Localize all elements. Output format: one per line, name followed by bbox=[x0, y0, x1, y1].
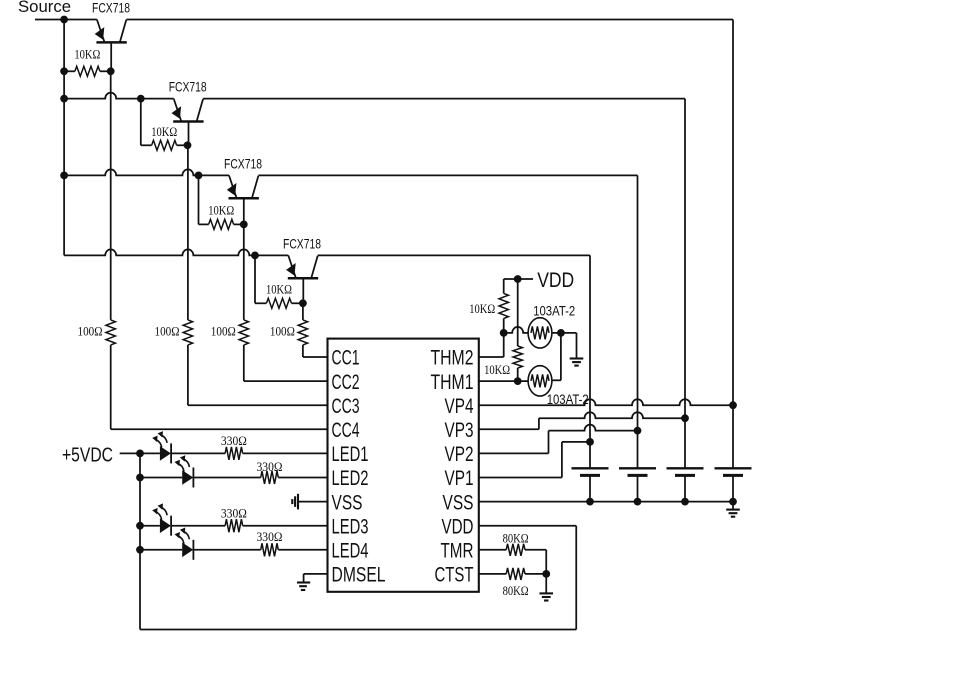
svg-text:Source: Source bbox=[18, 0, 71, 16]
svg-text:100Ω: 100Ω bbox=[78, 323, 103, 338]
ground (thermistor) bbox=[576, 351, 578, 359]
svg-text:100Ω: 100Ω bbox=[270, 323, 295, 338]
resistor 330&#937; (LED4) bbox=[261, 543, 279, 556]
ground (battery stack) bbox=[732, 502, 734, 510]
wire RT1 right to ground branch bbox=[552, 332, 577, 334]
svg-text:FCX718: FCX718 bbox=[169, 79, 207, 95]
junction 10K right / Q3 base bbox=[240, 221, 248, 229]
wire VP1 pin jog bbox=[479, 477, 562, 479]
svg-text:VP4: VP4 bbox=[445, 395, 474, 418]
resistor 10K&#937; (Q3 base) bbox=[199, 223, 209, 225]
junction 10K right / Q1 base bbox=[107, 67, 115, 75]
resistor 330&#937; (LED1) bbox=[225, 447, 243, 460]
wire +5V vertical bus bbox=[139, 453, 141, 629]
LED D4 bbox=[182, 543, 193, 558]
junction stage3 split bbox=[195, 172, 203, 180]
svg-text:10KΩ: 10KΩ bbox=[151, 124, 177, 139]
wire LED4 to resistor bbox=[193, 549, 260, 551]
svg-text:CC4: CC4 bbox=[332, 419, 360, 442]
svg-text:THM2: THM2 bbox=[431, 347, 474, 370]
wire VP2 pin jog bbox=[479, 452, 549, 454]
wire VSS rail bbox=[479, 501, 733, 503]
resistor 10K&#937; (Q4 base) bbox=[255, 302, 266, 304]
wire VP3 to battery3 bbox=[539, 412, 685, 418]
junction VP1 tap bbox=[586, 438, 594, 446]
svg-text:CC1: CC1 bbox=[332, 347, 360, 370]
transistor Q2 FCX718 bbox=[174, 99, 182, 121]
thermistor RT2 103AT-2 bbox=[528, 366, 552, 396]
junction THM1/10K bbox=[514, 377, 522, 385]
resistor 100&#937; #1 bbox=[110, 319, 112, 321]
junction VSS cell1 bbox=[586, 498, 594, 506]
wire CTST pin bbox=[479, 573, 506, 575]
svg-text:10KΩ: 10KΩ bbox=[266, 282, 292, 297]
svg-text:VP1: VP1 bbox=[445, 467, 474, 490]
wire +5V to LED2 bbox=[140, 477, 182, 479]
wire RT1/RT2 right link bbox=[560, 333, 562, 380]
LED D3 bbox=[160, 518, 171, 533]
wire to thermistor ground bbox=[576, 333, 578, 351]
svg-text:DMSEL: DMSEL bbox=[332, 564, 386, 587]
wire +5VDC feed bbox=[120, 452, 160, 454]
svg-text:VSS: VSS bbox=[443, 491, 474, 514]
wire Q2 base vertical to 100ohm resistor 2 bbox=[188, 122, 190, 146]
svg-text:LED1: LED1 bbox=[332, 443, 369, 466]
svg-text:CC3: CC3 bbox=[332, 395, 360, 418]
junction RT1 right bbox=[557, 329, 565, 337]
svg-text:10KΩ: 10KΩ bbox=[208, 203, 234, 218]
svg-text:THM1: THM1 bbox=[431, 371, 474, 394]
resistor 10K&#937; (Q1 base) bbox=[64, 70, 75, 72]
wire to LED4 pin bbox=[278, 549, 327, 551]
wire CC4 connection bbox=[110, 345, 112, 429]
svg-text:VP3: VP3 bbox=[445, 419, 474, 442]
wire bottom rail bbox=[140, 629, 576, 631]
wire THM1 pin bbox=[479, 380, 528, 382]
wire stage4 rail bbox=[64, 249, 288, 255]
wire stage4 Q4 collector run bbox=[318, 254, 590, 256]
wire vertical battery2 feed bbox=[637, 175, 639, 430]
IC U1 battery monitor bbox=[328, 339, 479, 592]
wire TMR to CTST junction bbox=[525, 549, 546, 551]
resistor 10K&#937; (THM2 pullup) bbox=[503, 279, 505, 293]
battery cell 1 (VP1) bbox=[589, 442, 591, 468]
svg-text:VDD: VDD bbox=[442, 515, 474, 538]
wire CC1 connection bbox=[302, 345, 304, 357]
ground (VSS left, rotated) bbox=[299, 501, 328, 503]
wire stage2 rail bbox=[64, 93, 174, 99]
junction LED3 tap bbox=[136, 522, 144, 530]
svg-text:LED3: LED3 bbox=[332, 515, 369, 538]
wire drop to 10K (Q2) bbox=[140, 99, 142, 146]
LED D2 bbox=[182, 470, 193, 485]
wire VP2 to battery2 bbox=[549, 425, 638, 431]
junction stage4 split bbox=[251, 252, 259, 260]
wire THM2 to thermistor RT1 bbox=[504, 327, 528, 333]
resistor 330&#937; (LED3) bbox=[225, 519, 243, 532]
junction 10K right / Q4 base bbox=[299, 299, 307, 307]
svg-text:LED2: LED2 bbox=[332, 467, 369, 490]
thermistor RT1 103AT-2 bbox=[528, 318, 552, 348]
wire to LED2 pin bbox=[278, 477, 327, 479]
ground (DMSEL) bbox=[304, 573, 328, 575]
wire CC3 connection bbox=[187, 345, 189, 405]
resistor 100&#937; #4 bbox=[302, 319, 304, 321]
wire RT2 right bbox=[552, 379, 561, 381]
wire Source vertical bus bbox=[63, 20, 65, 256]
junction LED2 tap bbox=[136, 474, 144, 482]
wire VP4 pin to battery4 bbox=[479, 399, 733, 405]
battery cell 2 (VP2) bbox=[637, 431, 639, 469]
junction VP3 tap bbox=[681, 414, 689, 422]
junction VSS cell3 bbox=[681, 498, 689, 506]
svg-text:FCX718: FCX718 bbox=[92, 0, 130, 16]
wire stage1 top rail (Source to Q1 emitter) bbox=[35, 19, 97, 21]
wire Q3 base vertical to 100ohm resistor 3 bbox=[243, 198, 245, 320]
transistor Q4 FCX718 bbox=[288, 255, 296, 277]
resistor 100&#937; #3 bbox=[243, 319, 245, 321]
svg-text:VDD: VDD bbox=[537, 269, 574, 292]
svg-text:330Ω: 330Ω bbox=[221, 433, 247, 448]
wire stage1 Q1 collector to battery4 top bbox=[126, 19, 733, 21]
wire VDD pin to +5V rail bbox=[479, 525, 576, 527]
wire stage3 rail bbox=[64, 169, 229, 175]
junction VP2 tap bbox=[634, 427, 642, 435]
LED D1 bbox=[160, 446, 171, 461]
wire stage3 Q3 collector run bbox=[258, 174, 637, 176]
wire LED2 to resistor bbox=[193, 477, 260, 479]
junction LED1 tap bbox=[136, 450, 144, 458]
junction VSS cell4 bbox=[729, 498, 737, 506]
svg-text:FCX718: FCX718 bbox=[283, 235, 321, 251]
battery cell 4 (VP4) bbox=[732, 405, 734, 468]
wire VP3 pin jog bbox=[479, 428, 539, 430]
wire vertical battery1 feed bbox=[589, 255, 591, 442]
wire to LED3 pin bbox=[243, 525, 328, 527]
resistor 80K&#937; (CTST) bbox=[506, 568, 525, 580]
wire to LED1 pin bbox=[243, 452, 328, 454]
svg-text:TMR: TMR bbox=[441, 540, 474, 563]
junction THM2/10K bbox=[500, 329, 508, 337]
wire TMR pin bbox=[479, 549, 506, 551]
junction stage3 on source bus bbox=[60, 172, 68, 180]
wire Q4 base vertical bbox=[302, 278, 304, 303]
junction TMR/CTST bbox=[542, 570, 550, 578]
svg-text:+5VDC: +5VDC bbox=[62, 445, 113, 467]
junction stage2 on source bus bbox=[60, 95, 68, 103]
svg-text:330Ω: 330Ω bbox=[257, 529, 283, 544]
resistor 10K&#937; (THM1 pullup) bbox=[517, 279, 519, 346]
resistor 10K&#937; (Q2 base) bbox=[141, 144, 152, 146]
junction 10K right / Q2 base bbox=[184, 141, 192, 149]
wire THM2 pin bbox=[479, 356, 504, 358]
wire +5V to LED3 bbox=[140, 525, 160, 527]
svg-text:VP2: VP2 bbox=[445, 443, 474, 466]
resistor 80K&#937; (TMR) bbox=[506, 544, 525, 556]
resistor 330&#937; (LED2) bbox=[261, 471, 279, 484]
wire LED3 to resistor bbox=[171, 525, 225, 527]
wire drop to 10K (Q3) bbox=[198, 175, 200, 224]
wire vertical battery4 feed bbox=[732, 20, 734, 406]
transistor Q1 FCX718 bbox=[97, 20, 105, 42]
junction VSS cell2 bbox=[634, 498, 642, 506]
junction Source/stage1 bbox=[60, 16, 68, 24]
svg-text:330Ω: 330Ω bbox=[257, 459, 283, 474]
svg-text:FCX718: FCX718 bbox=[224, 155, 262, 171]
wire vertical battery3 feed bbox=[684, 99, 686, 419]
resistor 100&#937; #2 bbox=[187, 319, 189, 321]
svg-text:VSS: VSS bbox=[332, 491, 363, 514]
svg-text:10KΩ: 10KΩ bbox=[469, 301, 495, 316]
wire +5V to LED4 bbox=[140, 549, 182, 551]
junction 10K left bbox=[60, 67, 68, 75]
junction LED4 tap bbox=[136, 546, 144, 554]
wire CTST to junction bbox=[525, 573, 546, 575]
svg-text:100Ω: 100Ω bbox=[155, 323, 180, 338]
ground (timer) bbox=[545, 574, 547, 594]
svg-text:CC2: CC2 bbox=[332, 371, 360, 394]
svg-text:80KΩ: 80KΩ bbox=[503, 531, 529, 546]
svg-text:100Ω: 100Ω bbox=[211, 323, 236, 338]
svg-text:80KΩ: 80KΩ bbox=[503, 583, 529, 598]
transistor Q3 FCX718 bbox=[229, 175, 237, 197]
wire stage2 Q2 collector run bbox=[203, 98, 685, 100]
svg-text:10KΩ: 10KΩ bbox=[74, 47, 100, 62]
svg-text:10KΩ: 10KΩ bbox=[484, 362, 510, 377]
junction VDD node bbox=[514, 275, 522, 283]
wire drop to 10K (Q4) bbox=[254, 255, 256, 303]
junction stage2 split bbox=[137, 95, 145, 103]
svg-text:103AT-2: 103AT-2 bbox=[533, 302, 575, 318]
battery cell 3 (VP3) bbox=[684, 418, 686, 468]
wire CC2 connection bbox=[243, 345, 245, 381]
junction VP4 tap bbox=[729, 401, 737, 409]
wire LED1 to resistor bbox=[171, 452, 225, 454]
svg-text:CTST: CTST bbox=[435, 564, 474, 587]
wire VP1 to battery1 bbox=[562, 441, 590, 443]
svg-text:LED4: LED4 bbox=[332, 540, 369, 563]
svg-text:330Ω: 330Ω bbox=[221, 506, 247, 521]
wire VDD node bbox=[518, 278, 533, 280]
wire Q1 base vertical to 100ohm resistor 1 bbox=[110, 42, 112, 71]
